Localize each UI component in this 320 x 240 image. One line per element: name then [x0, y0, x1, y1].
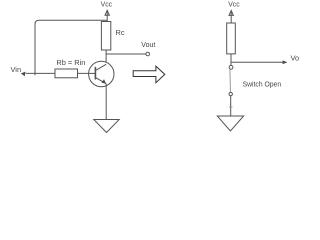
terminal Vout circle [146, 52, 150, 56]
wire collector stem [105, 50, 107, 65]
svg-text:Vcc: Vcc [228, 0, 240, 9]
wire emitter to ground [105, 84, 107, 120]
terminal Vo arrow [283, 60, 288, 64]
transistor Q1 emitter arrowhead [102, 79, 106, 83]
resistor Rc [101, 22, 110, 51]
wire Vo tap [231, 61, 284, 63]
svg-text:Vo: Vo [291, 54, 300, 63]
svg-text:Vcc: Vcc [101, 0, 113, 9]
transistor Q1 circle [89, 61, 114, 86]
resistor R (right) [227, 23, 236, 54]
ground (right) [217, 116, 243, 131]
junction tick [229, 106, 233, 108]
svg-text:Rc: Rc [116, 28, 125, 37]
resistor Rb [55, 69, 78, 78]
svg-text:Switch Open: Switch Open [243, 80, 282, 89]
wire base inside [89, 72, 95, 74]
transistor Q1 emitter [95, 77, 106, 83]
wire switch to ground [230, 96, 232, 116]
wire Vin to Rb [26, 72, 55, 74]
switch contact bottom circle [229, 92, 232, 95]
transistor Q1 base bar [94, 67, 96, 80]
wire feedback from Vcc stem to base node [35, 20, 107, 75]
ground (left) [94, 120, 119, 133]
block arrow (implies) [133, 66, 165, 83]
svg-text:Vin: Vin [11, 65, 22, 74]
svg-text:Rb = Rin: Rb = Rin [56, 58, 85, 67]
wire Vout tap [106, 53, 146, 55]
switch contact top circle [229, 65, 233, 69]
transistor Q1 collector [95, 64, 106, 70]
terminal Vin arrow [21, 72, 26, 77]
power Vcc arrow (left) [105, 10, 109, 21]
wire below resistor [230, 54, 232, 66]
svg-text:Vout: Vout [141, 40, 155, 49]
power Vcc arrow (right) [229, 10, 233, 23]
wire Rb to base [78, 72, 96, 74]
switch blade (open) [229, 69, 232, 92]
